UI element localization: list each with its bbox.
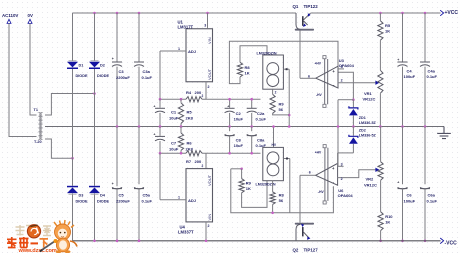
power flag +VCC: [440, 10, 443, 16]
svg-text:C1: C1: [171, 110, 177, 115]
zener ZD1 LM336-5Z: [352, 100, 354, 108]
capacitor C3a: [138, 13, 140, 62]
resistor R5b 1K: [379, 13, 381, 21]
capacitor C5a 0.1uF: [138, 127, 140, 185]
wire secondary top to D2 node: [45, 94, 95, 116]
svg-text:D2: D2: [100, 64, 105, 68]
wire U3 pin2 to VR1 wiper: [338, 82, 376, 84]
svg-text:3: 3: [341, 65, 343, 69]
svg-text:1K: 1K: [385, 220, 390, 225]
watermark dzsc logo: [16, 225, 52, 236]
svg-text:C2a: C2a: [257, 111, 265, 116]
svg-text:C4: C4: [407, 69, 413, 74]
resistor R9 56: [272, 89, 274, 94]
svg-text:DIODE: DIODE: [76, 199, 88, 203]
svg-text:2200uF: 2200uF: [116, 199, 130, 204]
wire R8 bottom outer loop to opamp: [229, 41, 353, 99]
svg-text:www.dzsc.com: www.dzsc.com: [18, 248, 57, 253]
svg-text:+: +: [112, 182, 114, 186]
wire U4 pin2 stub top: [205, 153, 207, 168]
wire U1 pin2 VOUT stub: [205, 82, 207, 99]
svg-text:2: 2: [208, 85, 210, 89]
wire D1 column: [72, 13, 74, 61]
wire U5 right pin: [283, 158, 289, 160]
svg-text:VR12C: VR12C: [363, 97, 376, 102]
svg-text:OPA604: OPA604: [338, 193, 354, 198]
svg-text:ADJ: ADJ: [188, 49, 196, 54]
wire U2 right pin: [283, 68, 289, 70]
svg-text:10uF: 10uF: [169, 147, 179, 152]
wire U4 pin1 ADJ: [160, 199, 186, 201]
svg-text:1K: 1K: [245, 71, 250, 76]
svg-text:ADJ: ADJ: [188, 198, 196, 203]
svg-text:C2: C2: [236, 111, 242, 116]
capacitor C8 10uF: [229, 127, 231, 132]
wire U1 pin3 VIN stub: [207, 13, 209, 29]
svg-text:2K8: 2K8: [186, 116, 194, 121]
svg-text:R9: R9: [246, 181, 252, 186]
wire ZD2 to lower opamp pin3: [338, 152, 354, 154]
svg-text:R4: R4: [186, 90, 192, 95]
svg-text:LM336-5Z: LM336-5Z: [359, 121, 377, 125]
voltage reference U5 LM329DZ: [273, 127, 275, 148]
node secondary top junction: [93, 92, 96, 95]
svg-text:1: 1: [178, 47, 180, 51]
svg-text:VOUT: VOUT: [207, 68, 212, 80]
wire bottom negative rail: [73, 240, 441, 242]
voltage reference U2 LM329DZ: [263, 55, 284, 89]
capacitor C2a 0.1uF: [251, 99, 253, 108]
svg-text:-HV: -HV: [316, 93, 322, 97]
svg-text:100uF: 100uF: [404, 199, 416, 204]
svg-text:C3a: C3a: [143, 69, 151, 74]
transistor Q2 TIP127: [295, 223, 314, 225]
transformer T1: [39, 113, 42, 140]
diode D4: [89, 186, 100, 188]
resistor R5 2K8: [180, 99, 182, 103]
svg-text:2: 2: [341, 79, 343, 83]
svg-text:R5: R5: [187, 110, 193, 115]
resistor R8 1K: [237, 62, 242, 77]
resistor R8b 56: [272, 181, 274, 192]
svg-text:DIODE: DIODE: [76, 74, 88, 78]
wire U3 output to Q1: [300, 77, 316, 79]
svg-text:ZD1: ZD1: [359, 116, 366, 120]
svg-text:6: 6: [309, 171, 311, 175]
svg-text:1K: 1K: [385, 29, 390, 34]
svg-text:AC110V: AC110V: [2, 13, 18, 18]
diode D1: [69, 60, 77, 62]
svg-text:C6a: C6a: [428, 193, 436, 198]
op-amp U6 OPA604: [316, 163, 338, 185]
resistor R9b 1K: [241, 169, 243, 179]
svg-text:+: +: [112, 57, 114, 61]
svg-text:VR12C: VR12C: [364, 183, 377, 188]
svg-text:LM317T: LM317T: [178, 25, 194, 30]
node +V raw junctions: [93, 12, 96, 15]
svg-text:C5a: C5a: [143, 193, 151, 198]
wire secondary bottom to D3 node: [45, 139, 73, 158]
svg-text:VOUT: VOUT: [207, 174, 212, 186]
wire reference bus vertical: [338, 99, 353, 101]
svg-text:VIN: VIN: [207, 214, 212, 221]
svg-text:C5: C5: [119, 193, 125, 198]
svg-text:2: 2: [208, 224, 210, 228]
wire AC110V to transformer primary bottom: [9, 23, 37, 136]
svg-text:LM336-5Z: LM336-5Z: [359, 134, 377, 138]
svg-text:2200uF: 2200uF: [116, 75, 130, 80]
svg-text:0V: 0V: [28, 13, 33, 18]
wire U6 pin2 to VR2 wiper: [338, 170, 376, 178]
svg-text:+HV: +HV: [315, 151, 322, 155]
wire U4 VIN stub to bottom rail: [205, 222, 207, 241]
wire U3 pin3: [338, 68, 344, 70]
capacitor C3: [116, 13, 118, 62]
svg-text:0.1uF: 0.1uF: [427, 199, 438, 204]
svg-text:-HV: -HV: [318, 190, 324, 194]
svg-text:DIODE: DIODE: [97, 74, 109, 78]
svg-text:2: 2: [275, 91, 277, 95]
svg-text:10uF: 10uF: [234, 117, 244, 122]
svg-text:VR1: VR1: [364, 91, 373, 96]
svg-text:56: 56: [279, 198, 284, 203]
wire Q1 base drive: [299, 31, 301, 79]
svg-text:C8: C8: [236, 138, 242, 143]
regulator U1 LM317T: [186, 29, 213, 82]
capacitor C6 100uF: [402, 127, 404, 185]
resistor R4 200: [186, 97, 202, 102]
svg-text:C6: C6: [407, 193, 413, 198]
capacitor C7 10uF: [159, 125, 162, 128]
node secondary bottom junction: [71, 157, 74, 160]
capacitor C4 100uF: [402, 13, 404, 62]
svg-text:C3: C3: [119, 69, 125, 74]
svg-text:+: +: [397, 180, 399, 184]
svg-text:0.1uF: 0.1uF: [427, 74, 438, 79]
wire D2 column: [94, 13, 96, 61]
svg-text:R8: R8: [245, 65, 251, 70]
svg-text:R6: R6: [187, 141, 193, 146]
wire ground mid rail: [45, 126, 444, 128]
svg-text:2: 2: [202, 94, 204, 98]
svg-text:DIODE: DIODE: [97, 199, 109, 203]
svg-text:R8: R8: [279, 193, 285, 198]
capacitor C1 10uF: [159, 99, 161, 108]
wire R9b bottom inner loop: [242, 181, 267, 208]
svg-text:3: 3: [341, 162, 343, 166]
svg-text:10uF: 10uF: [169, 116, 179, 121]
svg-text:1K: 1K: [246, 186, 251, 191]
svg-text:ZD2: ZD2: [359, 129, 366, 133]
capacitor C5 2200uF: [116, 127, 118, 187]
wire R9 bottom to U2 pin node: [273, 114, 290, 115]
svg-text:C8a: C8a: [257, 138, 265, 143]
capacitor C2 10uF: [229, 99, 231, 108]
wire R8 top to U2 box: [240, 46, 267, 63]
svg-text:VIN: VIN: [207, 37, 212, 44]
svg-text:-VCC: -VCC: [445, 241, 458, 247]
capacitor C4a 0.1uF: [424, 13, 426, 62]
svg-text:Q1: Q1: [293, 4, 299, 9]
svg-text:TIP127: TIP127: [304, 248, 319, 253]
svg-text:Q2: Q2: [293, 248, 299, 253]
ground symbol: [443, 127, 445, 134]
diode D3: [67, 186, 78, 188]
wire U6 power pins: [324, 148, 326, 201]
svg-text:+: +: [397, 58, 399, 62]
diode D2: [91, 60, 99, 62]
svg-text:R9: R9: [279, 102, 285, 107]
wire top positive rail: [73, 12, 297, 14]
wire U3 power pins: [324, 59, 326, 104]
svg-text:R10: R10: [385, 214, 393, 219]
svg-text:1: 1: [178, 196, 180, 200]
potentiometer VR2: [380, 127, 382, 162]
svg-text:C7: C7: [171, 141, 177, 146]
svg-text:6: 6: [308, 75, 310, 79]
svg-text:R7: R7: [186, 159, 192, 164]
resistor R10 1K: [378, 212, 383, 231]
svg-text:R5: R5: [385, 23, 391, 28]
resistor R7 200: [186, 151, 202, 156]
svg-text:100uF: 100uF: [404, 74, 416, 79]
wire U6 pin3: [337, 153, 339, 166]
svg-text:0.1uF: 0.1uF: [142, 199, 153, 204]
svg-text:VR2: VR2: [366, 177, 375, 182]
svg-text:C4a: C4a: [428, 69, 436, 74]
svg-text:T-20: T-20: [34, 140, 42, 144]
wire VOUT node lower: [160, 152, 186, 154]
wire U1 pin1 ADJ: [160, 50, 186, 52]
wire U6 output to Q2: [300, 174, 316, 176]
svg-text:HV: HV: [272, 143, 277, 147]
capacitor C8a 0.1uF: [251, 127, 253, 132]
wire lower outer loop: [231, 168, 242, 170]
svg-text:2: 2: [202, 164, 204, 168]
svg-text:T1: T1: [34, 108, 38, 112]
wire VOUT node: [160, 98, 186, 100]
svg-text:+HV: +HV: [315, 62, 322, 66]
wire 0V to transformer primary top: [30, 23, 37, 115]
node reference bus: [352, 98, 355, 101]
svg-text:D3: D3: [79, 193, 84, 197]
svg-text:LM337T: LM337T: [178, 230, 194, 235]
svg-text:+VCC: +VCC: [445, 10, 459, 16]
resistor R6 2K8: [180, 127, 182, 134]
power flag -VCC: [440, 238, 443, 244]
potentiometer VR1: [379, 40, 381, 70]
svg-text:+: +: [153, 132, 155, 136]
op-amp U3 OPA604: [316, 66, 338, 88]
capacitor C6a 0.1uF: [424, 127, 426, 185]
svg-text:3: 3: [204, 24, 206, 28]
svg-text:0.1uF: 0.1uF: [142, 75, 153, 80]
svg-text:TIP122: TIP122: [304, 4, 319, 9]
svg-text:2: 2: [341, 177, 343, 181]
svg-text:10uF: 10uF: [234, 143, 244, 148]
regulator U4 LM337T: [186, 169, 213, 222]
svg-text:0.1uF: 0.1uF: [256, 117, 267, 122]
svg-text:LM329DZ/N: LM329DZ/N: [257, 52, 277, 56]
svg-text:D1: D1: [79, 64, 84, 68]
svg-text:56: 56: [279, 107, 284, 112]
